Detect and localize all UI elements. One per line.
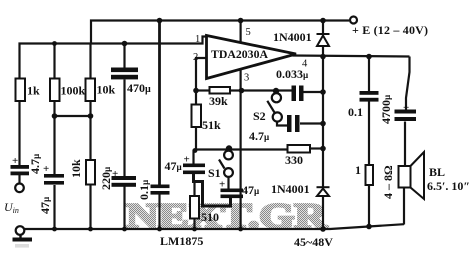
- value label 470u: [127, 81, 151, 95]
- junction bottom rail / 47u: [52, 227, 57, 232]
- wire 100k top branch: [53, 44, 55, 80]
- svg-text:4.7µ: 4.7µ: [249, 129, 270, 143]
- value label 39k: [209, 94, 228, 108]
- junction 4.7u node: [320, 121, 326, 127]
- terminal +E: [350, 17, 357, 24]
- svg-text:45~48V: 45~48V: [294, 235, 333, 249]
- svg-text:4 – 8Ω: 4 – 8Ω: [381, 165, 395, 199]
- value label 1 ohm: [355, 163, 361, 177]
- wire 0.1u bottom: [158, 195, 160, 230]
- junction pin1 line / 470u tap: [122, 41, 128, 47]
- junction top rail / pin 5: [238, 18, 244, 24]
- wire S2 bottom elbow: [277, 122, 287, 126]
- svg-text:39k: 39k: [209, 94, 228, 108]
- capacitor 4.7u S2: [287, 115, 300, 132]
- svg-text:10k: 10k: [69, 159, 83, 178]
- junction bottom rail / pin3 line: [238, 227, 243, 232]
- capacitor 0.033u: [292, 86, 304, 102]
- terminal Uin: [15, 184, 24, 193]
- svg-text:1k: 1k: [27, 84, 40, 98]
- svg-text:0.033µ: 0.033µ: [276, 67, 309, 81]
- diode D1 1N4001 top: [317, 34, 330, 46]
- svg-text:0.1µ: 0.1µ: [137, 179, 151, 200]
- resistor 10k upper: [86, 79, 96, 102]
- speaker BL: [399, 152, 425, 199]
- value label 47u rotated: [38, 196, 52, 214]
- junction bottom rail / 1 ohm: [366, 224, 372, 230]
- wire 0.033u to out node: [304, 91, 324, 93]
- wire pin2 stub: [196, 58, 207, 108]
- svg-text:+: +: [12, 155, 18, 167]
- wire 510 bottom: [193, 219, 195, 230]
- wire feedback row: [194, 148, 288, 150]
- node label pin4: [302, 59, 308, 70]
- switch S2: [267, 93, 282, 122]
- junction pin2 node: [193, 88, 199, 94]
- diode D2 1N4001 bottom: [317, 187, 330, 196]
- node label pin1: [195, 34, 200, 45]
- value label 510: [201, 210, 219, 224]
- resistor 1ohm: [366, 165, 374, 185]
- svg-text:47µ: 47µ: [38, 196, 52, 214]
- wire 10k mid: [89, 101, 91, 160]
- resistor 39k: [210, 87, 231, 94]
- svg-text:510: 510: [201, 210, 219, 224]
- svg-text:LM1875: LM1875: [160, 234, 203, 248]
- wire 330 right: [310, 147, 323, 149]
- junction output / 0.1 branch: [366, 54, 372, 60]
- op-amp U1 TDA2030A: [207, 36, 297, 79]
- wire 1ohm to rail: [368, 185, 370, 227]
- svg-text:+ E (12 – 40V): + E (12 – 40V): [352, 23, 428, 37]
- svg-text:+: +: [403, 102, 409, 114]
- value label +E: [352, 23, 428, 37]
- value label 4.7u S2: [249, 129, 270, 143]
- wire S1 drop: [228, 149, 230, 152]
- junction 39k / pin3 line: [239, 88, 245, 94]
- svg-text:BL: BL: [429, 165, 445, 179]
- svg-text:3: 3: [244, 73, 249, 84]
- wire 220u to rail: [123, 187, 125, 230]
- wire 39k to 0.033u: [230, 89, 292, 91]
- capacitor 220u: [112, 176, 137, 187]
- svg-text:1: 1: [195, 34, 200, 45]
- wire 47u left to 510: [194, 174, 231, 206]
- value label 6.5 10: [427, 179, 470, 193]
- watermark NEXT.GR: [126, 196, 328, 235]
- wire 47u left stub: [192, 150, 194, 164]
- polarity mark 4.7u input: [12, 155, 18, 167]
- wire diode top branch: [322, 21, 324, 34]
- value label 330: [285, 153, 303, 167]
- resistor 1k: [16, 79, 26, 102]
- junction bias node right: [88, 113, 94, 119]
- value label 47u S1: [242, 183, 260, 197]
- wire 47u S1 bottom: [229, 196, 231, 198]
- terminal ground circle: [16, 226, 25, 235]
- wire out node vertical: [322, 57, 324, 187]
- value label 1k: [27, 84, 40, 98]
- wire 0.1 to 1ohm: [368, 102, 370, 166]
- resistor 10k lower: [86, 160, 95, 185]
- value label 4700u rotated: [379, 94, 393, 124]
- wire 4.7u to input terminal: [18, 175, 20, 184]
- capacitor 470u: [111, 68, 138, 80]
- wire pin3 to rail: [240, 69, 242, 229]
- junction 330 node: [320, 146, 326, 152]
- junction output / diode D1 branch: [320, 54, 326, 60]
- wire diode top to out: [322, 46, 324, 57]
- wire 4700u branch: [406, 57, 410, 110]
- junction 0.033u node: [320, 89, 326, 95]
- resistor 330: [288, 145, 311, 153]
- svg-text:470µ: 470µ: [127, 81, 151, 95]
- svg-text:1N4001: 1N4001: [273, 30, 312, 44]
- svg-text:4700µ: 4700µ: [379, 94, 393, 124]
- wire diode bottom to rail: [322, 196, 324, 230]
- value label 45-48V: [294, 235, 333, 249]
- svg-text:47µ: 47µ: [242, 183, 260, 197]
- junction bottom rail / 10k: [88, 227, 93, 232]
- svg-text:100k: 100k: [61, 84, 86, 98]
- wire pin5: [240, 21, 242, 43]
- svg-text:2: 2: [193, 52, 198, 63]
- svg-text:S2: S2: [253, 109, 266, 123]
- capacitor 47u bias: [44, 174, 64, 185]
- wire speaker bottom: [403, 188, 405, 225]
- svg-text:47µ: 47µ: [165, 159, 183, 173]
- svg-text:330: 330: [285, 153, 303, 167]
- node label pin2: [193, 52, 198, 63]
- wire top rail: [91, 21, 349, 44]
- wire 4.7u right: [300, 122, 323, 124]
- polarity mark 220u: [112, 168, 118, 180]
- svg-text:4.7µ: 4.7µ: [28, 153, 42, 174]
- resistor 100k: [50, 79, 60, 102]
- polarity mark 47u feedback: [184, 154, 190, 166]
- wire 510 top: [193, 182, 195, 197]
- svg-text:1: 1: [355, 163, 361, 177]
- value label TDA2030A: [211, 47, 268, 61]
- capacitor 47u feedback: [183, 164, 205, 175]
- value label 1N4001 top: [273, 30, 312, 44]
- svg-text:5: 5: [246, 27, 251, 38]
- wire 51k bottom: [195, 127, 197, 150]
- wire 470u tap: [123, 44, 125, 69]
- wire 0.1u vertical: [158, 21, 161, 185]
- wire S1 to 47u: [227, 177, 229, 189]
- value label 220u rotated: [99, 166, 113, 190]
- svg-text:6.5′. 10″: 6.5′. 10″: [427, 179, 470, 193]
- resistor 51k: [192, 105, 202, 128]
- wire 10k lower to rail: [89, 185, 91, 230]
- junction top rail / diode D1: [320, 18, 326, 24]
- svg-text:51k: 51k: [202, 118, 221, 132]
- capacitor 4700u: [395, 110, 417, 122]
- wire bottom rail: [24, 224, 404, 229]
- wire 39k node: [196, 89, 210, 91]
- wire bias bridge: [55, 115, 91, 117]
- wire 1k to 4.7u: [18, 101, 20, 165]
- svg-text:+: +: [43, 163, 49, 175]
- wire 100k to node: [53, 101, 55, 174]
- capacitor 0.1u: [151, 185, 170, 195]
- wire 0.1 branch top: [368, 57, 370, 92]
- value label 51k: [202, 118, 221, 132]
- svg-text:0.1: 0.1: [348, 105, 363, 119]
- svg-text:+: +: [219, 179, 225, 191]
- value label 10k rotated: [69, 159, 83, 178]
- capacitor 0.1 out: [360, 91, 379, 102]
- value label 10k upper: [97, 83, 116, 97]
- value label 0.1 out: [348, 105, 363, 119]
- value label S2: [253, 109, 266, 123]
- value label 47u feedback: [165, 159, 183, 173]
- junction bottom rail / 220u: [122, 227, 127, 232]
- value label S1: [208, 166, 221, 180]
- wire 10k top: [89, 44, 91, 80]
- capacitor 4.7u input: [11, 165, 30, 175]
- capacitor 47u S1: [221, 189, 244, 199]
- wire output: [293, 56, 410, 57]
- node label pin3: [244, 73, 249, 84]
- svg-text:1N4001: 1N4001: [271, 182, 310, 196]
- ground: [13, 235, 33, 246]
- value label Uin: [4, 200, 19, 215]
- value label 0.1u rotated: [137, 179, 151, 200]
- wire 470u to 220u: [123, 80, 125, 177]
- junction bottom rail / 510: [192, 227, 197, 232]
- junction S1 top: [226, 145, 232, 151]
- junction S2 top: [273, 88, 279, 94]
- value label 1N4001 bottom: [271, 182, 310, 196]
- polarity mark 47u S1: [219, 179, 225, 191]
- junction bottom rail / diode D2: [320, 226, 326, 232]
- junction pin1 line / 100k tap: [52, 41, 57, 46]
- junction bottom rail / 0.1u: [157, 227, 162, 232]
- value label BL: [429, 165, 445, 179]
- wire 4700u to speaker: [404, 122, 406, 167]
- svg-text:+: +: [184, 154, 190, 166]
- svg-text:+: +: [112, 168, 118, 180]
- wire 47u to rail: [53, 185, 55, 230]
- value label 4.7u rotated: [28, 153, 42, 174]
- resistor 510: [190, 196, 199, 219]
- value label 4-8ohm rotated: [381, 165, 395, 199]
- value label LM1875: [160, 234, 203, 248]
- polarity mark 47u bias: [43, 163, 49, 175]
- junction top rail / 0.1u branch: [157, 18, 163, 24]
- value label 0.033u: [276, 67, 309, 81]
- svg-text:10k: 10k: [97, 83, 116, 97]
- value label 100k: [61, 84, 86, 98]
- svg-text:220µ: 220µ: [99, 166, 113, 190]
- svg-text:TDA2030A: TDA2030A: [211, 47, 268, 61]
- node label pin5: [246, 27, 251, 38]
- junction bias node left: [52, 113, 58, 119]
- switch S1: [219, 151, 233, 177]
- polarity mark 4700u: [403, 102, 409, 114]
- wire pin1 input line: [20, 37, 207, 80]
- junction 51k / 47u node: [193, 148, 198, 153]
